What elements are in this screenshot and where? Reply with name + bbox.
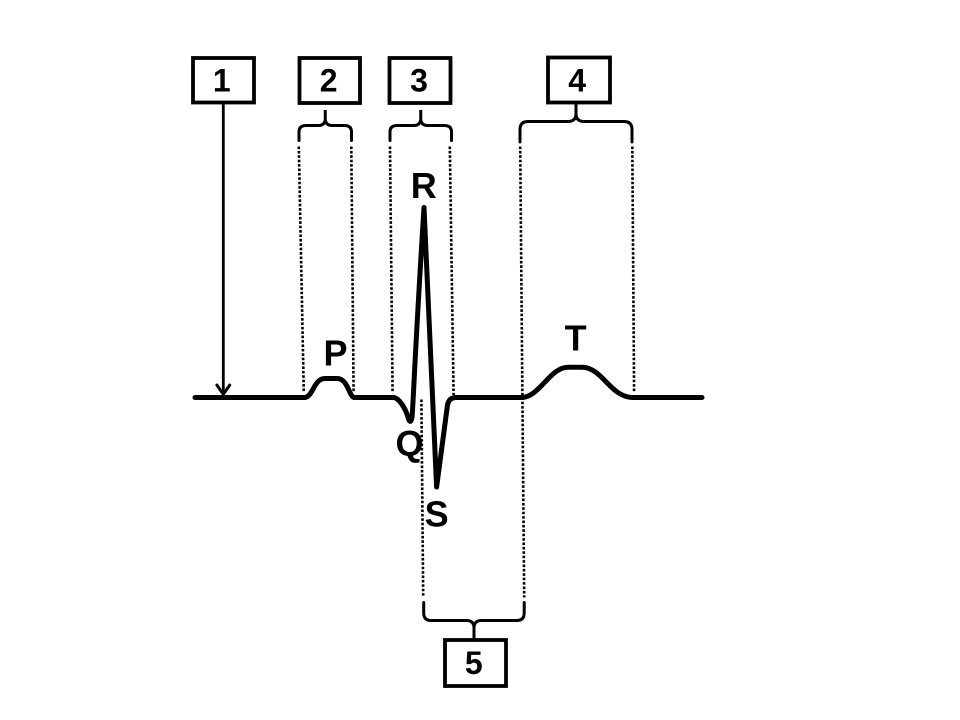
- brace 5 (under interval, pointing down): [424, 603, 525, 641]
- ECG waveform trace (baseline, P wave, QRS complex, T wave): [195, 208, 702, 488]
- arrowhead (open V): [217, 385, 230, 394]
- dotted line interval-left (below baseline): [421, 400, 423, 598]
- arrow shaft from box 1 to baseline: [222, 104, 225, 392]
- svg-text:5: 5: [465, 645, 483, 681]
- box 2: [300, 58, 361, 103]
- dotted line QRS-left: [390, 147, 393, 393]
- box 4: [548, 58, 610, 103]
- svg-text:3: 3: [410, 63, 428, 99]
- dotted line P-right: [351, 147, 353, 393]
- svg-text:T: T: [565, 318, 587, 359]
- brace 2 (over P wave): [299, 110, 352, 141]
- svg-text:1: 1: [213, 63, 231, 99]
- box 3: [390, 58, 451, 103]
- svg-text:Q: Q: [395, 423, 423, 464]
- box 1: [193, 58, 254, 103]
- dotted line P-left: [299, 147, 304, 393]
- box 5: [445, 640, 506, 686]
- svg-text:P: P: [323, 333, 347, 374]
- dotted line T-left / interval-right (long): [520, 147, 524, 598]
- svg-text:S: S: [425, 494, 449, 535]
- svg-text:2: 2: [320, 63, 338, 99]
- brace 4 (over T region): [520, 104, 632, 143]
- dotted line QRS-right: [450, 147, 454, 396]
- dotted line T-right: [632, 147, 634, 393]
- brace 3 (over QRS): [390, 110, 452, 141]
- svg-text:4: 4: [568, 63, 586, 99]
- svg-text:R: R: [411, 165, 437, 206]
